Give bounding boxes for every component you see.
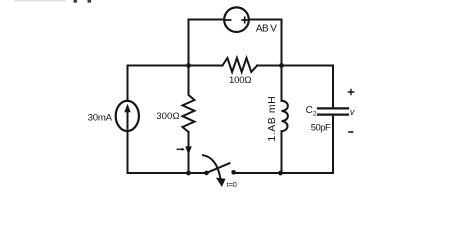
wire resistor100 to junction	[257, 65, 281, 67]
wire left vertical upper	[127, 66, 129, 102]
wire bottom right segment	[234, 172, 333, 174]
switch SW contacts	[204, 171, 209, 176]
switch blade	[207, 163, 230, 173]
capacitor polarity plus	[348, 89, 353, 94]
resistor R 100ohm	[222, 58, 257, 72]
wire node A to resistor 100	[189, 65, 223, 67]
wire capacitor down	[332, 116, 334, 173]
svg-text:50pF: 50pF	[311, 122, 331, 133]
capacitor C2 plates	[318, 107, 348, 109]
svg-text:100Ω: 100Ω	[229, 75, 251, 86]
dot bottom of inductor branch	[278, 171, 283, 176]
small current tick arrow	[177, 148, 182, 150]
node B dot	[279, 63, 284, 68]
switch closing arrow	[203, 155, 220, 177]
svg-text:v: v	[350, 107, 355, 117]
wire node A up to voltage source	[189, 20, 225, 66]
voltage source VS AB V	[224, 7, 249, 32]
wire top-left horizontal	[128, 65, 189, 67]
svg-text:300Ω: 300Ω	[156, 111, 180, 122]
resistor R 300ohm	[183, 66, 195, 133]
svg-text:30mA: 30mA	[88, 113, 113, 124]
current source I1 30mA	[116, 101, 139, 131]
wire left vertical lower	[127, 131, 129, 173]
svg-text:1.AB mH: 1.AB mH	[266, 96, 278, 142]
capacitor polarity minus	[349, 131, 353, 133]
wire voltage source right down	[249, 20, 282, 66]
wire 300ohm down with current arrow	[188, 132, 190, 173]
inductor L 1.AB mH	[281, 66, 283, 101]
wire bottom left segment	[128, 172, 207, 174]
svg-text:t=0: t=0	[227, 180, 237, 189]
svg-text:AB V: AB V	[256, 24, 277, 35]
node A dot	[186, 63, 191, 68]
cropped text artifact top edge	[14, 0, 91, 3]
wire junction to capacitor branch	[282, 66, 334, 108]
dot bottom of 300 branch	[186, 171, 191, 176]
